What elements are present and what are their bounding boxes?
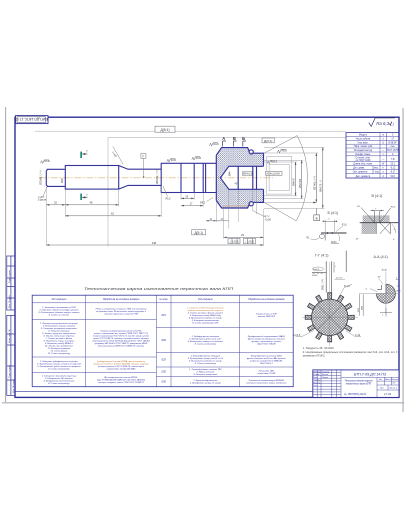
svg-text:Rz40: Rz40 [382,270,388,272]
process table [32,295,293,387]
svg-text:45°: 45° [235,184,239,186]
dim 11 gear left [206,218,216,222]
svg-text:4. Сдать контролёру: 4. Сдать контролёру [48,382,70,385]
section mark G teal top [80,150,88,158]
svg-text:Н.контр.: Н.контр. [314,382,321,384]
svg-text:1. Твердость 45...50 HRC.: 1. Твердость 45...50 HRC. [303,346,335,350]
svg-text:ГОСТ 13755: ГОСТ 13755 [386,150,400,152]
svg-text:4. Сдать по наладке: 4. Сдать по наладке [49,314,70,317]
svg-text:Листов 1: Листов 1 [389,388,397,390]
svg-text:размеров ±IT14/2.: размеров ±IT14/2. [303,354,326,358]
diameter dimension verticals [296,147,323,208]
svg-text:Ход операции: Ход операции [197,298,214,301]
svg-text:Пров.: Пров. [314,377,319,379]
svg-text:Ход операции: Ход операции [50,298,67,301]
svg-text:выс.: выс. [374,168,379,170]
svg-text:Взам. инв. №: Взам. инв. № [8,329,11,343]
shaft section 6 with groove [194,163,216,192]
label box D(5:1) below shaft [192,230,206,235]
spline gear wheel section [294,262,362,346]
svg-text:Подп. и дата: Подп. и дата [9,269,11,283]
svg-text:ШЦ-I-125-0,1: ШЦ-I-125-0,1 [260,363,272,365]
svg-text:Модуль: Модуль [359,135,368,137]
svg-text:Rz20: Rz20 [282,151,288,153]
svg-text:А: А [222,136,225,141]
arrow on hub line [313,202,316,204]
tolerance frames [228,238,255,243]
rotated diameter labels right [293,176,323,192]
svg-text:лев.: лев. [390,146,395,148]
svg-text:Rz20: Rz20 [196,158,202,160]
gear parameters table top right [346,133,399,178]
svg-text:4 Т-09: 4 Т-09 [384,393,392,396]
svg-text:13. Сдать контролёру: 13. Сдать контролёру [48,352,71,355]
shaft section 2 [65,166,118,190]
thin rule above main view [35,130,346,132]
svg-text:Число зубьев: Число зубьев [356,139,371,141]
detail A-A(4:1) drawing [358,270,402,317]
centerline of shaft [39,177,273,179]
svg-text:4. Сдать контролёру: 4. Сдать контролёру [195,362,217,365]
svg-text:R6,3: R6,3 [200,202,206,204]
svg-text:Ra 6,3 (: Ra 6,3 ( [376,121,392,126]
svg-text:Инв. № дубл.: Инв. № дубл. [8,294,11,308]
svg-text:R1,6: R1,6 [166,198,172,200]
svg-text:2 фаски: 2 фаски [38,199,47,202]
svg-text:контроль твёрдости; мойка; кле: контроль твёрдости; мойка; клеймение [246,381,287,384]
leader R1,6 bottom [163,186,171,200]
shaft section 3 [128,169,161,185]
svg-text:Технологическая карта изготовл: Технологическая карта изготовление перви… [84,286,233,291]
svg-text:m: m [382,135,384,137]
datum square B [314,209,320,221]
boxed label G with leader [141,153,146,177]
svg-text:4. Сдать контролёру: 4. Сдать контролёру [195,342,217,345]
leader 1x45 2 faski bottom left [38,187,47,202]
svg-text:Ø57r6(˖⁰٫⁰⁴¹): Ø57r6(˖⁰٫⁰⁴¹) [312,176,316,190]
svg-text:40°: 40° [356,239,359,241]
leader 1x45 top [111,146,123,164]
svg-text:Напр. линии зуба: Напр. линии зуба [354,146,373,148]
svg-text:7-В: 7-В [391,159,395,161]
shaft section 5 [181,163,194,192]
gear section outline [216,148,263,208]
thread label box right of gear [266,171,282,175]
svg-text:z=12: z=12 [355,334,361,337]
label box D(5:1) top center [155,126,175,132]
left margin rotated labels [8,269,15,393]
svg-text:твердомер ТК-2М: твердомер ТК-2М [258,372,276,375]
dim 29 gear [224,233,264,238]
svg-text:Угол накл.: Угол накл. [358,142,369,144]
svg-text:В: В [233,136,236,141]
svg-text:гр. ЗМТЛ(БТ)-102-Б: гр. ЗМТЛ(БТ)-102-Б [344,393,366,396]
detail V(4:1) drawing [356,206,399,241]
title block [313,370,399,398]
section cut letters A V B [222,136,245,141]
svg-text:Г-Г (4:1): Г-Г (4:1) [315,254,328,258]
svg-text:Дел. диаметр: Дел. диаметр [356,176,371,178]
svg-text:23,1: 23,1 [390,164,395,166]
rotated diameter labels [39,169,160,185]
dim 17 small [181,203,203,207]
extension lines right of gear [264,147,325,208]
svg-text:ШЦ-II ГОСТ 166-89: ШЦ-II ГОСТ 166-89 [257,343,276,345]
svg-text:R 1,6: R 1,6 [344,285,350,288]
svg-text:m=3,5: m=3,5 [294,334,301,337]
svg-text:3. Контроль твердости: 3. Контроль твердости [193,373,218,376]
svg-text:модели 16К20 Ф3: модели 16К20 Ф3 [258,315,276,318]
svg-text:025: 025 [162,358,167,362]
svg-text:Инв. № подл.: Инв. № подл. [12,379,15,393]
svg-text:Обработка на исходные размеры: Обработка на исходные размеры [103,298,140,301]
svg-text:первичного вала КПП: первичного вала КПП [346,383,372,386]
svg-text:Rz20: Rz20 [213,144,219,146]
svg-text:4. Сдать контролёру: 4. Сдать контролёру [48,367,70,370]
svg-text:27°±2°: 27°±2° [336,277,343,279]
svg-text:1×45°: 1×45° [38,196,44,199]
svg-text:Д(5:1): Д(5:1) [194,231,203,235]
svg-text:R1,6: R1,6 [342,224,348,226]
scan edge right [402,108,405,412]
scan edge left [4,107,7,402]
svg-text:Подп. и дата: Подп. и дата [9,364,11,378]
svg-text:Осн. диаметр: Осн. диаметр [353,172,368,174]
svg-text:Б (4:1): Б (4:1) [328,211,339,215]
svg-text:-0,12: -0,12 [390,168,396,170]
gear section hatch fill [216,148,263,208]
thin rule 2 above main view [108,136,346,138]
svg-text:БТП.Т-09.ДП.14.ПЗ: БТП.Т-09.ДП.14.ПЗ [354,372,387,376]
svg-text:015: 015 [162,313,167,317]
svg-text:БИП.ДП.14ПС.17.03: БИП.ДП.14ПС.17.03 [15,117,48,121]
svg-text:Rz20: Rz20 [171,160,177,162]
svg-text:Ø52H12: Ø52H12 [299,178,302,188]
svg-text:Ø44: Ø44 [230,171,232,176]
svg-text:2. Неуказанные предельные откл: 2. Неуказанные предельные отклонения раз… [303,350,398,354]
overall dim 248 [46,241,263,246]
svg-text:020: 020 [162,338,167,342]
drawing frame [15,117,399,397]
svg-text:51,6: 51,6 [390,176,395,178]
section mark G teal bottom [80,193,88,200]
svg-text:Разраб.: Разраб. [314,374,321,376]
detail G-G(4:1) drawing [312,251,346,293]
svg-text:Д(5:1): Д(5:1) [160,128,169,132]
svg-text:M24×1,5: M24×1,5 [243,173,253,176]
svg-text:Петров: Петров [322,377,328,379]
svg-text:А-А (4:1): А-А (4:1) [374,255,388,259]
top-left stamp box [15,116,48,124]
svg-text:М24х1,5-6Н: М24х1,5-6Н [267,172,280,175]
svg-text:Дел. диам.: Дел. диам. [353,168,365,170]
shaft body outline [46,163,216,192]
roughness marks over shaft [41,142,286,163]
svg-text:248: 248 [152,241,157,245]
gear bore [220,166,263,189]
bracket dim 3+0.2 right [253,190,272,221]
svg-text:Б: Б [242,136,245,141]
svg-text:035: 035 [162,379,167,383]
dim 25 small [181,195,194,199]
svg-text:+0,05: +0,05 [265,218,272,221]
dim 17 gear [216,218,229,221]
svg-text:Ø28: Ø28 [61,178,64,183]
gear leaders [296,331,315,337]
svg-text:): ) [392,122,394,126]
svg-text:2. Шлифовать шейки по эскизу: 2. Шлифовать шейки по эскизу [189,381,222,384]
svg-text:Коэфф. смещ.: Коэфф. смещ. [355,153,371,156]
detail B(4:1) drawing [307,218,348,244]
bore labels inside gear [230,171,253,186]
svg-text:штампе обрезном; оснастка ГКМ: штампе обрезном; оснастка ГКМ [104,313,138,315]
svg-text:резец канавочный ВК8 ГОСТ 1888: резец канавочный ВК8 ГОСТ 18885-73; опра… [97,345,145,348]
svg-text:-0,17: -0,17 [390,172,396,174]
svg-text:Ø46H7: Ø46H7 [293,177,296,186]
svg-text:Изм Лист № докум.: Изм Лист № докум. [314,370,331,373]
svg-text:№ опер.: № опер. [159,298,168,301]
svg-text:Длина общ. норм.: Длина общ. норм. [353,164,373,166]
svg-text:Т.контр.: Т.контр. [314,380,321,382]
shaft taper 2-3 [119,166,128,190]
scan edge bottom [2,401,404,404]
svg-text:В (4:1): В (4:1) [372,194,383,198]
svg-text:Лит.: Лит. [379,379,383,381]
svg-text:8°36'34": 8°36'34" [388,142,397,144]
svg-text:по ГОСТ 1643: по ГОСТ 1643 [356,160,372,162]
svg-text:Обработка на исходные размеры: Обработка на исходные размеры [248,298,285,301]
svg-text:Rz40: Rz40 [312,275,318,277]
leader R6,3 gear bottom left [200,198,213,205]
svg-text:центры; хомутик; скобы СР50 ГО: центры; хомутик; скобы СР50 ГОСТ 11098-7… [98,382,144,384]
svg-text:6. Сдать контролёру ОТК: 6. Сдать контролёру ОТК [192,321,219,324]
fan sector arc [264,136,308,221]
svg-text:Г: Г [142,155,144,159]
svg-text:Ø25k6(˖⁰٫⁰¹⁵): Ø25k6(˖⁰٫⁰¹⁵) [39,170,43,185]
svg-text:R0,5: R0,5 [391,207,396,209]
svg-text:Ø30h6(₋⁰٫⁰¹³): Ø30h6(₋⁰٫⁰¹³) [155,169,159,184]
svg-text:Ra6,3: Ra6,3 [313,269,320,271]
svg-text:Б: Б [316,217,318,221]
svg-text:Масштаб: Масштаб [391,379,399,381]
label box D(5:1) right of gear [262,138,275,143]
notes text [303,346,398,358]
svg-text:Д(5:1): Д(5:1) [264,139,272,143]
shaft section 4 [161,163,181,192]
gear parameter rows text [353,135,400,178]
svg-text:Утв.: Утв. [314,385,318,387]
dimension extension lines below shaft [46,186,263,246]
svg-text:45°: 45° [378,277,381,279]
long bottom rule [15,391,399,393]
svg-text:Иванов: Иванов [322,374,328,376]
svg-text:Лист: Лист [380,388,384,390]
svg-text:Ø64,75₋⁰٫²: Ø64,75₋⁰٫² [319,180,323,192]
svg-text:Исходный контур: Исходный контур [354,149,373,152]
thin vertical view line [107,137,109,246]
small orange line in lower gear [222,205,248,207]
svg-text:Rz40: Rz40 [44,161,50,163]
dim 20 left [46,201,65,206]
svg-text:030: 030 [162,370,167,374]
dim 48 [65,201,118,206]
roughness general mark top right [369,118,395,127]
left margin box group 2 [7,315,15,395]
dim 62 [65,212,161,217]
shaft section 1 left end [46,169,65,186]
svg-text:⊥ 0,05 Б: ⊥ 0,05 Б [244,241,254,244]
left margin box group 1 [7,256,15,310]
svg-text:5N9(₋⁰٫⁰³⁰): 5N9(₋⁰٫⁰³⁰) [322,279,325,290]
svg-text:нормалемер; прибор БВ-5045: нормалемер; прибор БВ-5045 [107,367,137,370]
svg-text:тощ.: тощ. [375,172,380,174]
svg-text:⊥ 0,05 Б: ⊥ 0,05 Б [229,241,239,244]
